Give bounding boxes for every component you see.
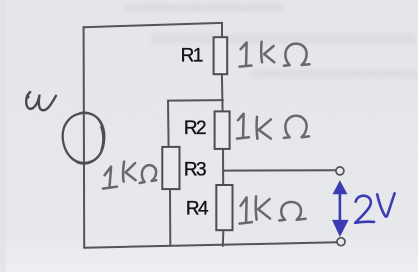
svg-text:R4: R4: [186, 198, 209, 219]
svg-text:R1: R1: [181, 45, 203, 66]
svg-text:R3: R3: [184, 160, 206, 181]
svg-text:R2: R2: [184, 118, 206, 139]
